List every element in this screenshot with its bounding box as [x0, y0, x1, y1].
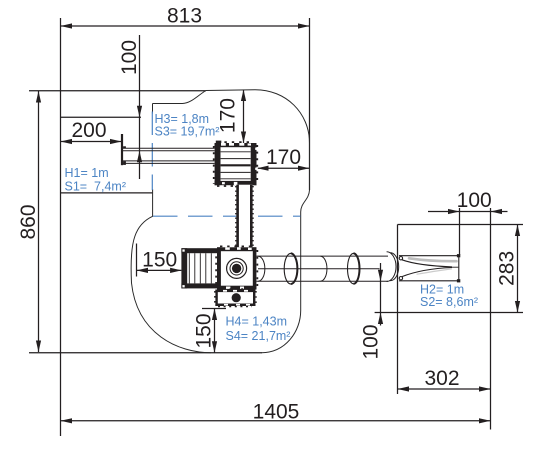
svg-text:170: 170 [217, 98, 240, 133]
svg-text:S4= 21,7m²: S4= 21,7m² [226, 329, 291, 343]
svg-text:S1= 7,4m²: S1= 7,4m² [65, 180, 127, 194]
svg-text:170: 170 [266, 146, 301, 169]
svg-text:100: 100 [360, 324, 383, 359]
svg-text:813: 813 [167, 5, 202, 28]
svg-text:S3= 19,7m²: S3= 19,7m² [155, 125, 220, 139]
svg-text:302: 302 [424, 367, 459, 390]
svg-text:H4= 1,43m: H4= 1,43m [226, 315, 288, 329]
svg-text:860: 860 [17, 204, 40, 239]
svg-text:1405: 1405 [253, 400, 300, 423]
svg-text:283: 283 [496, 251, 519, 286]
svg-text:150: 150 [142, 249, 177, 272]
svg-text:200: 200 [71, 119, 106, 142]
svg-text:100: 100 [457, 189, 492, 212]
svg-text:150: 150 [193, 313, 216, 348]
svg-text:H1= 1m: H1= 1m [65, 166, 109, 180]
svg-text:S2= 8,6m²: S2= 8,6m² [420, 295, 478, 309]
svg-text:100: 100 [118, 40, 141, 75]
